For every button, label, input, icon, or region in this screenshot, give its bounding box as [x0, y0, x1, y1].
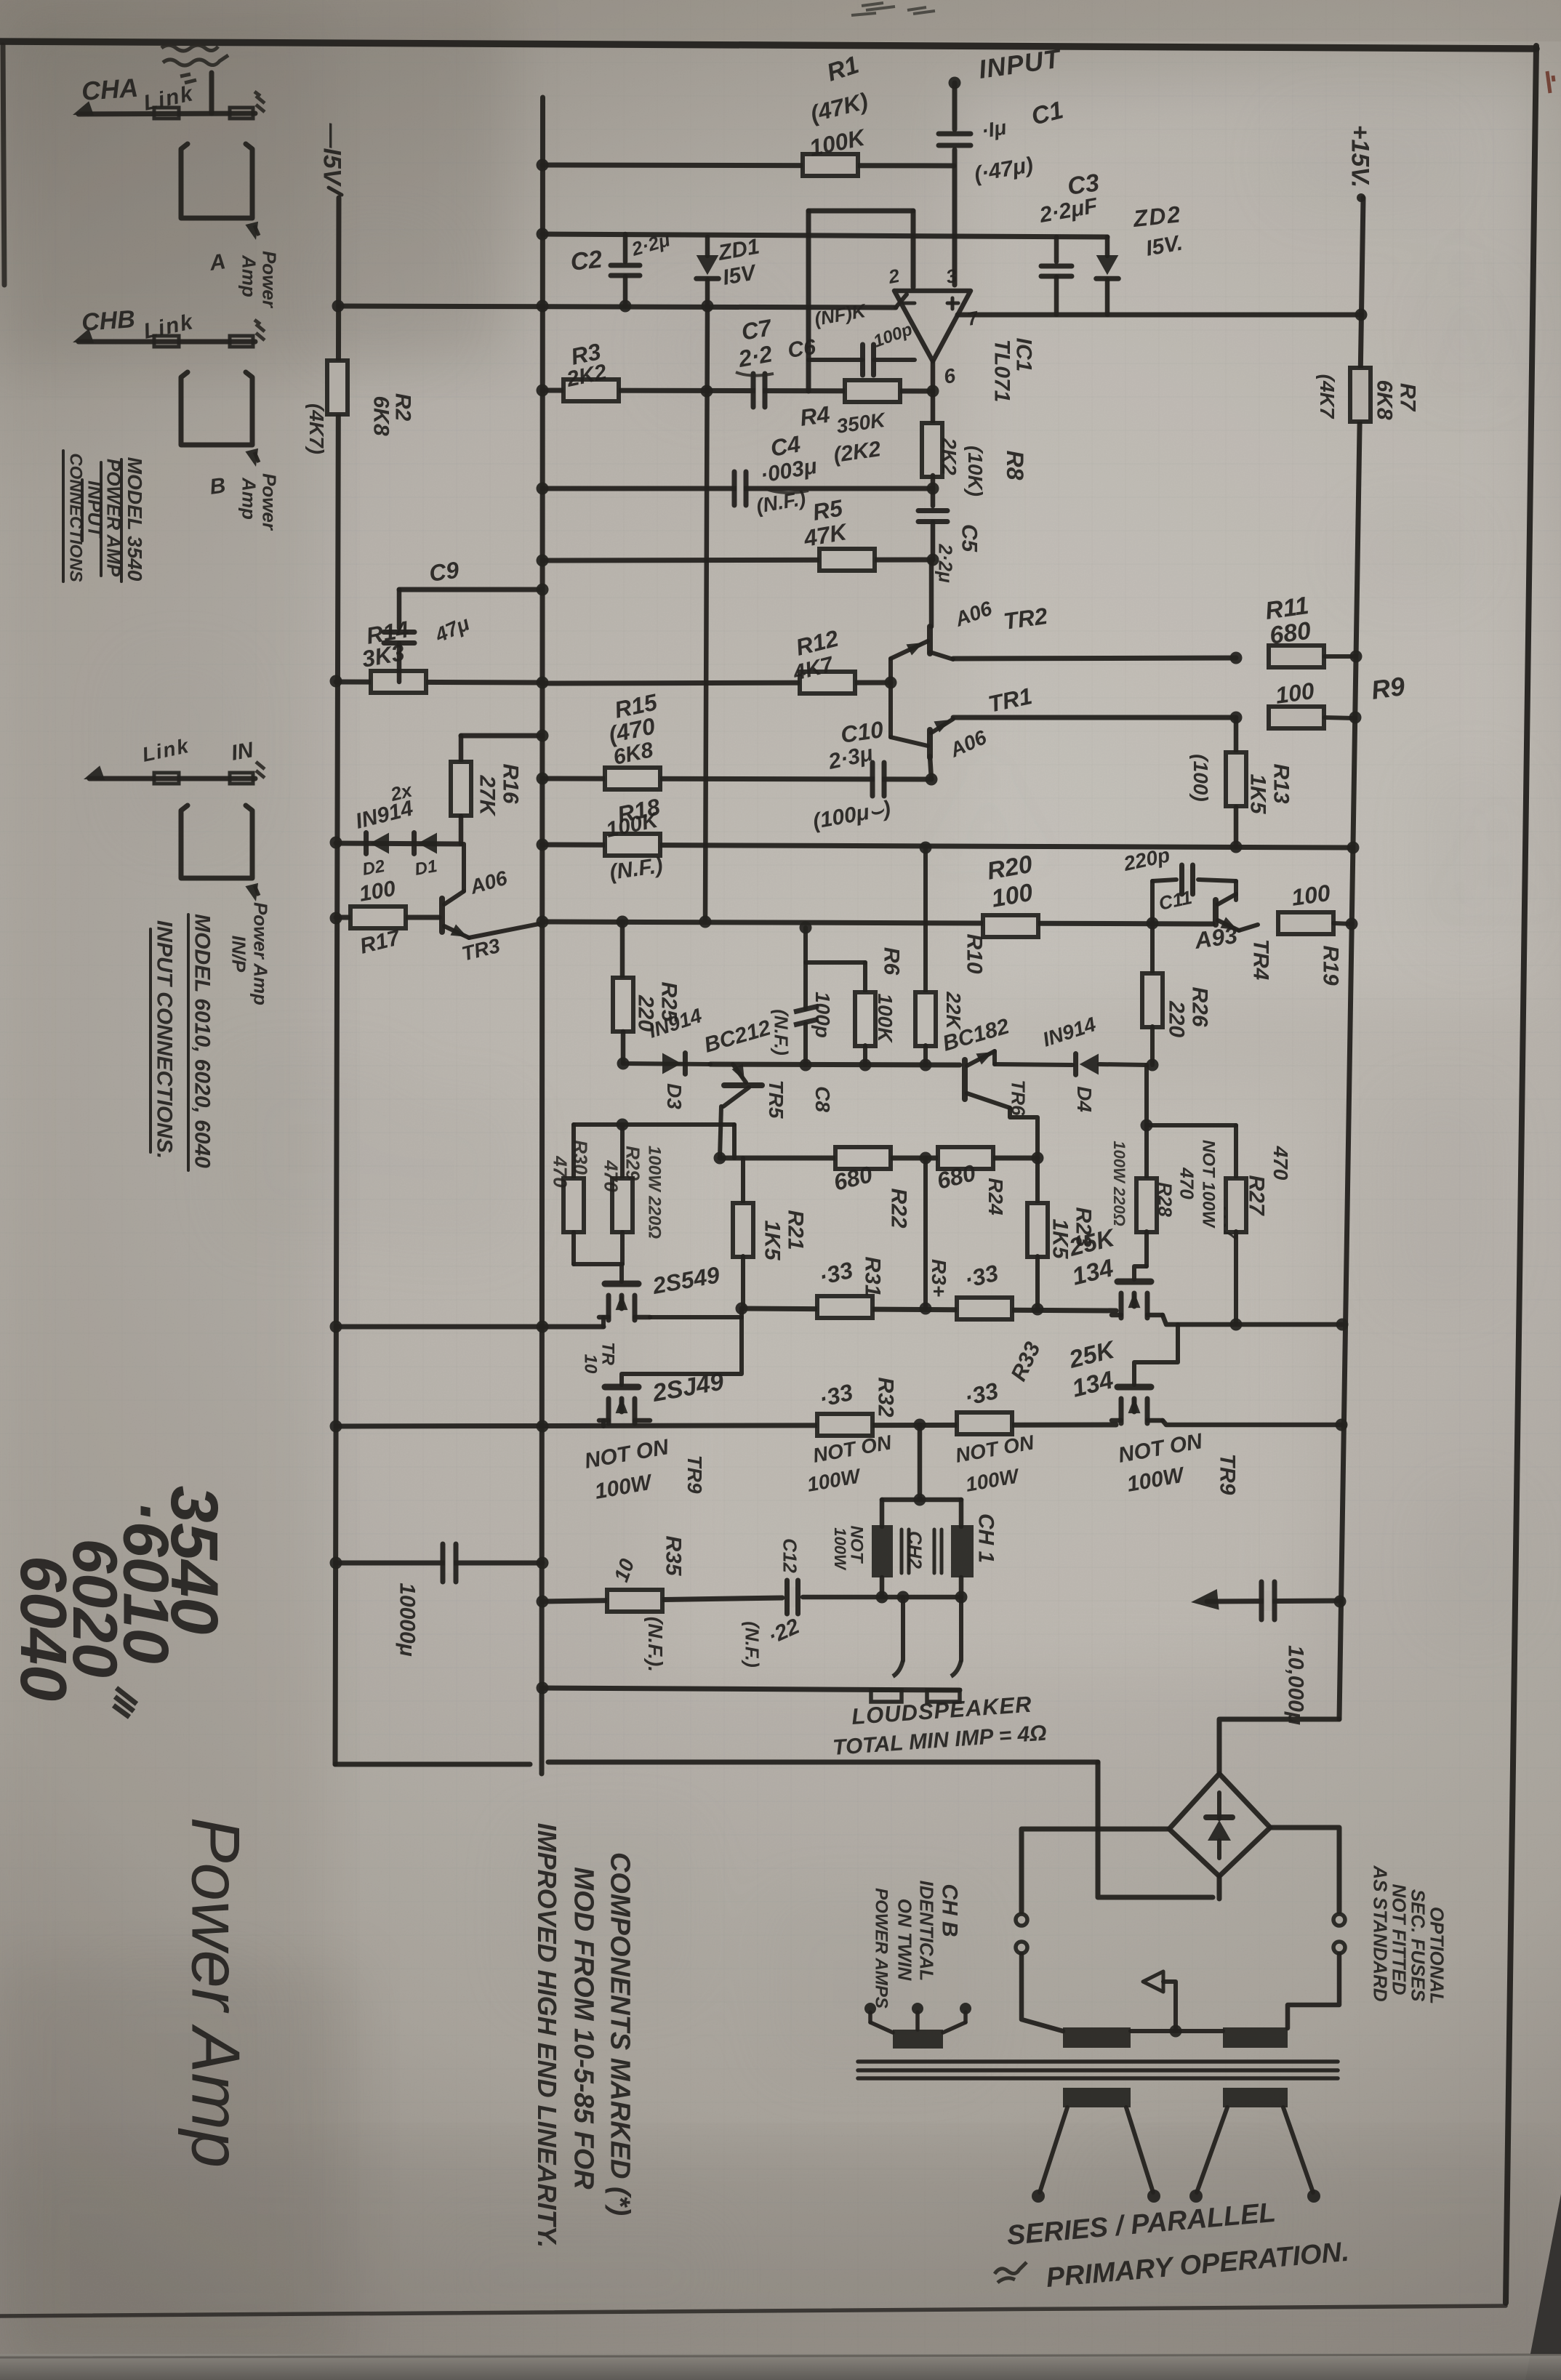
- zener ZD2: [1105, 237, 1110, 256]
- wire CH1 drop: [959, 1500, 964, 1527]
- svg-text:(N.F.): (N.F.): [741, 1621, 763, 1668]
- wire D3 row: [623, 1064, 710, 1064]
- wire TR4 emitter to R19: [1239, 925, 1258, 930]
- transistor TR2 base bar: [927, 627, 933, 654]
- top-centre scribbles: [851, 3, 935, 15]
- node D4/R26: [1147, 1059, 1159, 1072]
- main centre rail (vertical): [542, 97, 543, 1774]
- wire R1 row: [542, 165, 954, 166]
- resistor R26 (vertical): [1150, 923, 1155, 974]
- bridge rectifier diamond: [1169, 1774, 1270, 1876]
- long vertical from ZD1 node: [705, 306, 707, 922]
- capacitor 10000u main smoothing (left): [336, 1561, 542, 1566]
- node centre rail junction: [537, 1321, 549, 1333]
- node C11 bottom: [1147, 917, 1159, 930]
- wire bottom bus segment: [548, 1760, 1098, 1765]
- op-amp minus sign: [904, 302, 915, 305]
- resistor R12: [800, 672, 855, 694]
- wire TR10 source link: [650, 1308, 742, 1317]
- svg-text:+15V.: +15V.: [1347, 125, 1374, 188]
- svg-text:B: B: [208, 473, 227, 499]
- svg-text:R4: R4: [798, 401, 832, 431]
- svg-text:IC1: IC1: [1011, 338, 1035, 372]
- node left rail junction: [330, 912, 342, 925]
- svg-text:CH 1: CH 1: [974, 1513, 998, 1563]
- link wiper marks CH B: [254, 320, 265, 340]
- svg-text:R30: R30: [569, 1140, 591, 1175]
- svg-text:100: 100: [1274, 678, 1316, 709]
- mosfet TR10 (2SJ49 left): [605, 1281, 638, 1287]
- wire TR6 collector stub: [992, 1051, 997, 1064]
- capacitor C2: [623, 234, 628, 262]
- resistor R35: [607, 1590, 662, 1612]
- svg-text:10: 10: [581, 1354, 601, 1374]
- resistor R9: [1269, 707, 1324, 728]
- -15V rail (vertical): [335, 198, 339, 1764]
- node R23 bottom: [1032, 1303, 1044, 1316]
- svg-text:100K: 100K: [874, 994, 896, 1044]
- connector pad IN1: [154, 773, 179, 784]
- link wiper marks CH A: [254, 92, 265, 112]
- stub to op-amp pin2: [896, 294, 907, 307]
- resistor R17: [350, 906, 406, 928]
- wire R3/C7/R4 row: [542, 390, 933, 391]
- transistor TR4 collector lead: [1218, 894, 1236, 904]
- svg-text:22K: 22K: [942, 991, 965, 1030]
- wire R17 row: [336, 915, 439, 920]
- capacitor C4: [737, 478, 744, 499]
- svg-text:MODEL 6010, 6020, 6040: MODEL 6010, 6020, 6040: [190, 914, 214, 1168]
- svg-text:Power: Power: [258, 251, 280, 309]
- resistor R8 (vertical): [931, 391, 936, 425]
- capacitor C10: [875, 769, 882, 789]
- mosfet TR7 (2SK134): [1117, 1279, 1151, 1285]
- svg-text:R2: R2: [390, 393, 414, 422]
- wire ZD1 bottom row: [339, 306, 896, 307]
- resistor R19: [1278, 912, 1333, 934]
- svg-text:(4K7: (4K7: [1316, 374, 1339, 419]
- node centre rail junction: [537, 1682, 549, 1694]
- terminal primary 1 right: [1147, 2190, 1160, 2203]
- resistor R2 (vertical, on -15V rail): [327, 361, 348, 414]
- wire R30/R29 top row: [574, 1122, 734, 1127]
- node centre rail junction: [537, 839, 549, 851]
- node right rail junction: [1346, 918, 1358, 930]
- wire R30/R29 row to driver row: [732, 1125, 737, 1158]
- terminal primary 2 right: [1307, 2190, 1320, 2203]
- node ZD1 vertical / R3 row: [701, 385, 713, 398]
- node centre rail junction: [537, 228, 549, 241]
- wire R5 row: [542, 560, 933, 560]
- terminal primary 1 left: [1032, 2190, 1045, 2203]
- svg-text:(N.F.): (N.F.): [770, 1009, 792, 1056]
- svg-text:D3: D3: [663, 1083, 686, 1109]
- mosfet TR9 (left lower): [605, 1384, 638, 1391]
- transistor TR4 base bar: [1213, 900, 1219, 925]
- node centre rail junction: [537, 483, 549, 495]
- svg-text:R27: R27: [1244, 1175, 1268, 1215]
- node +15V rail top: [1357, 193, 1365, 202]
- wire primary 1 left lead: [1040, 2107, 1067, 2192]
- CH B terminals: [864, 2003, 876, 2014]
- wire fuse right to secondary: [1288, 1954, 1339, 2028]
- wire C2/ZD1 row: [542, 234, 1107, 237]
- node R5 row right: [927, 554, 939, 566]
- wire bridge bottom stub: [1217, 1876, 1222, 1899]
- wire bridge right arm: [1270, 1828, 1339, 1912]
- svg-text:CH B: CH B: [937, 1884, 961, 1937]
- wire R18 row: [542, 845, 1353, 848]
- op-amp IC1 TL071 triangle: [894, 291, 971, 361]
- capacitor C7: [755, 380, 763, 401]
- svg-text:MODEL 3540: MODEL 3540: [124, 457, 146, 582]
- node left rail junction: [330, 837, 342, 849]
- right-hand rail (vertical, tilted): [1339, 198, 1363, 1719]
- node R29 top: [617, 1119, 629, 1131]
- resistor R31: [817, 1296, 872, 1318]
- node ZD1 vertical / R20 row: [699, 916, 712, 928]
- diode D3: [662, 1053, 681, 1074]
- capacitor 10000u (right): [1207, 1601, 1340, 1601]
- fuse contacts left: [1016, 1914, 1027, 1926]
- node centre rail junction: [537, 677, 549, 689]
- wire TR6 emitter path: [1010, 1108, 1038, 1158]
- wire pin7 to +15V rail: [958, 313, 1361, 318]
- scribble after 6020: [113, 1688, 137, 1717]
- svg-text:TR4: TR4: [1248, 939, 1272, 981]
- ground arrow (right): [1191, 1589, 1219, 1609]
- node driver row left: [714, 1152, 726, 1165]
- node C4 row left: [927, 483, 939, 495]
- svg-text:MOD FROM 10-5-85 FOR: MOD FROM 10-5-85 FOR: [569, 1867, 599, 2190]
- wire CH2 to output row: [880, 1577, 885, 1597]
- wire output row to CH1: [803, 1595, 961, 1600]
- wire bottom bus to bridge: [1098, 1762, 1213, 1897]
- node R28/R27 row: [1141, 1119, 1153, 1132]
- wire speaker drop B: [959, 1597, 963, 1660]
- node R31/R22 vertical: [920, 1303, 932, 1315]
- node -15V/R2 junction: [332, 300, 345, 313]
- node output to chokes: [914, 1419, 926, 1431]
- choke CH1 core: [933, 1529, 936, 1573]
- wire bridge left arm: [1022, 1829, 1169, 1912]
- wire R28/R27 top row: [1147, 1123, 1236, 1127]
- input connector line with arrow: [89, 776, 255, 781]
- wire output rail to bridge top: [1219, 1719, 1339, 1774]
- link loop CH A: [181, 144, 252, 218]
- resistor R15: [605, 768, 660, 789]
- svg-text:470: 470: [1176, 1167, 1197, 1199]
- transformer core lines: [858, 2059, 1338, 2064]
- svg-text:R19: R19: [1318, 945, 1342, 985]
- svg-text:IDENTICAL: IDENTICAL: [915, 1881, 937, 1982]
- transistor TR6 base bar: [962, 1060, 968, 1099]
- node left rail junction: [330, 1557, 342, 1569]
- label FROM PREAMP scribble: [161, 45, 228, 83]
- transformer primary winding 2: [1223, 2088, 1288, 2107]
- capacitor C12: [790, 1587, 796, 1607]
- svg-text:2·2μ: 2·2μ: [934, 543, 956, 583]
- transistor TR6 collector lead: [967, 1051, 995, 1066]
- resistor R33: [957, 1412, 1012, 1434]
- svg-text:470: 470: [600, 1159, 622, 1192]
- wire R16 top row: [461, 733, 542, 739]
- wire lower gate row (R32/R33): [336, 1425, 1116, 1426]
- svg-text:1K5: 1K5: [760, 1220, 784, 1261]
- wire TR5 collector down: [720, 1106, 721, 1158]
- svg-text:AS STANDARD: AS STANDARD: [1369, 1865, 1391, 2002]
- svg-text:27K: 27K: [475, 774, 499, 816]
- svg-text:NOT 100W: NOT 100W: [1199, 1140, 1219, 1229]
- resistor R4: [845, 380, 900, 402]
- wire CH2 drop: [880, 1500, 885, 1527]
- connector pad A1: [154, 108, 179, 118]
- connector pad B2: [230, 336, 253, 347]
- resistor R22: [835, 1147, 891, 1169]
- svg-text:R3+: R3+: [928, 1259, 950, 1297]
- CH A input line with arrow: [79, 113, 255, 114]
- svg-text:R26: R26: [1187, 986, 1211, 1026]
- wire TR8 drain up: [1134, 1324, 1178, 1385]
- capacitor C5: [931, 489, 936, 506]
- feedback loop left vertical: [806, 211, 811, 391]
- resistor R29 (vertical): [620, 1125, 625, 1178]
- transistor TR5 emitter lead: [733, 1064, 746, 1082]
- ground arrow (transformer): [1163, 1982, 1176, 2031]
- transistor TR1 base bar: [927, 730, 933, 757]
- svg-text:TL071: TL071: [990, 339, 1014, 403]
- svg-text:R24: R24: [984, 1178, 1007, 1215]
- svg-text:6K8: 6K8: [1372, 379, 1396, 419]
- svg-text:100p: 100p: [811, 992, 834, 1038]
- wire primary 2 right lead: [1283, 2107, 1313, 2192]
- link loop IN: [181, 805, 252, 878]
- wire TR9 drain link: [622, 1317, 742, 1385]
- wire R20 row: [542, 922, 1213, 924]
- svg-text:6040: 6040: [7, 1556, 79, 1701]
- svg-text:R31: R31: [860, 1256, 884, 1296]
- wire input to C1: [952, 83, 958, 129]
- svg-text:C5: C5: [957, 524, 981, 553]
- node input junction: [949, 77, 961, 89]
- wire primary 2 left lead: [1197, 2107, 1227, 2192]
- transistor TR1 base lead: [891, 737, 928, 746]
- bottom-right dark wedge: [1525, 2194, 1561, 2380]
- resistor R20: [983, 915, 1038, 937]
- node C8 bottom: [800, 1059, 812, 1072]
- node TR2/R11: [1230, 652, 1243, 664]
- wire CH1 to output row: [959, 1577, 964, 1597]
- capacitor C11 loop: [1150, 881, 1155, 923]
- svg-text:INPUT CONNECTIONS.: INPUT CONNECTIONS.: [152, 920, 176, 1159]
- capacitor C8 (vertical): [803, 928, 808, 1009]
- node centre rail junction: [537, 730, 549, 742]
- resistor R3: [563, 379, 619, 401]
- transistor TR5 base bar: [724, 1082, 762, 1088]
- node centre rail junction: [537, 916, 549, 928]
- svg-text:Power Amp: Power Amp: [177, 1817, 254, 2168]
- node R10 top: [920, 842, 932, 854]
- resistor R7 (on +15V rail): [1350, 368, 1371, 422]
- capacitor C9 (vertical): [397, 590, 402, 628]
- svg-text:(10K): (10K): [964, 446, 987, 496]
- node centre rail junction: [537, 773, 549, 785]
- svg-text:R32: R32: [873, 1377, 897, 1417]
- resistor R28 (vertical): [1144, 1125, 1149, 1179]
- wire R22 junction vertical: [923, 1158, 928, 1308]
- wire -15V rail to bottom corner: [335, 1762, 530, 1767]
- wire TR2 collector: [929, 560, 934, 627]
- svg-text:R7: R7: [1395, 383, 1419, 412]
- link loop CH B: [181, 372, 252, 445]
- wire R30/R29 bottom row: [574, 1262, 622, 1266]
- node right rail junction: [1355, 309, 1368, 321]
- svg-text:ZD2: ZD2: [1131, 201, 1183, 232]
- transistor TR4 emitter lead: [1218, 920, 1239, 930]
- bridge centre diode: [1217, 1793, 1221, 1819]
- svg-text:TR6: TR6: [1007, 1080, 1029, 1116]
- resistor R23 (vertical): [1035, 1158, 1040, 1204]
- wire op-amp output: [931, 361, 936, 391]
- scribble before PRIMARY: [995, 2262, 1027, 2283]
- resistor R34: [957, 1298, 1012, 1319]
- speaker terminal B: [927, 1690, 960, 1702]
- svg-text:—I5V: —I5V: [318, 122, 346, 187]
- mosfet TR8 (2SJ49): [1117, 1384, 1151, 1391]
- node right rail junction: [1350, 651, 1363, 663]
- capacitor C3: [1054, 237, 1059, 262]
- svg-text:CONNECTIONS: CONNECTIONS: [66, 453, 86, 582]
- transistor TR3 collector: [444, 891, 464, 904]
- resistor R24: [938, 1147, 993, 1169]
- hook and arrow IN: [254, 885, 259, 896]
- node left rail junction: [330, 1321, 342, 1333]
- terminal primary 2 left: [1189, 2190, 1203, 2203]
- hook mark CH A: [254, 225, 259, 236]
- link wiper marks IN: [256, 762, 265, 778]
- connector pad IN2: [230, 773, 253, 784]
- wire speaker return bus: [542, 1688, 960, 1690]
- wire R11 to rail: [1325, 654, 1356, 659]
- node centre rail junction: [537, 1596, 549, 1608]
- svg-text:C2: C2: [569, 246, 603, 276]
- choke CH2 winding: [872, 1525, 893, 1577]
- node centre rail junction: [537, 300, 549, 313]
- red registration mark top-right: [1547, 71, 1554, 93]
- node R25 top: [617, 916, 629, 928]
- capacitor C6: [865, 350, 872, 370]
- speaker terminal A: [871, 1690, 902, 1702]
- fuse contacts right: [1333, 1914, 1345, 1926]
- svg-text:TR: TR: [598, 1342, 618, 1366]
- resistor R25 (vertical): [620, 922, 625, 978]
- svg-text:IN/P: IN/P: [228, 936, 249, 973]
- wire driver row: [720, 1156, 1038, 1161]
- wire D4 to gate node: [1099, 1064, 1147, 1065]
- resistor R10 (vertical): [923, 848, 928, 993]
- wire diode row (D2 D1): [336, 843, 461, 844]
- resistor R14: [371, 671, 426, 693]
- diode D2: [370, 833, 389, 854]
- wire R19 to rail: [1333, 923, 1352, 924]
- wire R35 output row: [542, 1598, 782, 1601]
- svg-text:R35: R35: [661, 1535, 685, 1576]
- svg-text:470: 470: [549, 1155, 571, 1188]
- node centre rail junction: [537, 385, 549, 397]
- transformer primary winding 1: [1063, 2088, 1131, 2107]
- wire left gate row upper (y1825): [336, 1324, 603, 1330]
- wire secondary centre link: [1131, 2029, 1223, 2033]
- svg-text:·Iμ: ·Iμ: [980, 116, 1008, 142]
- zener ZD1: [705, 237, 710, 256]
- wire R6 jog: [806, 960, 865, 965]
- node right rail junction: [1336, 1319, 1349, 1331]
- svg-text:TR9: TR9: [683, 1455, 706, 1494]
- CH B terminal leads: [868, 2012, 872, 2022]
- transistor TR5 collector lead: [723, 1088, 749, 1106]
- wire R14 row: [336, 682, 542, 683]
- resistor R13 (vertical): [1234, 718, 1239, 752]
- svg-text:Power: Power: [258, 473, 280, 531]
- capacitor C1: [939, 132, 971, 137]
- resistor R5: [819, 549, 875, 571]
- svg-text:(4K7): (4K7): [305, 403, 328, 454]
- svg-text:1K5: 1K5: [1245, 773, 1269, 814]
- svg-text:TR9: TR9: [1215, 1454, 1239, 1495]
- hook mark CH B: [254, 452, 259, 462]
- node centre rail junction: [537, 555, 549, 567]
- node R23 top: [1032, 1152, 1044, 1165]
- node ZD1 bottom: [702, 300, 714, 313]
- svg-text:C9: C9: [428, 557, 461, 587]
- svg-text:R29: R29: [622, 1146, 643, 1181]
- wire TR2 to R11: [953, 658, 1236, 659]
- svg-text:Power Amp: Power Amp: [249, 902, 271, 1005]
- wire base node down: [888, 683, 893, 737]
- svg-text:100: 100: [1290, 880, 1332, 911]
- svg-text:100W: 100W: [831, 1527, 849, 1571]
- node left rail junction: [330, 675, 342, 688]
- svg-text:100W 220Ω: 100W 220Ω: [645, 1146, 665, 1239]
- node left rail junction: [330, 1420, 342, 1433]
- node right rail junction: [1336, 1419, 1348, 1431]
- gate resistor network node: [1144, 1065, 1149, 1125]
- wire D4 row: [995, 1064, 1072, 1065]
- resistor R16 (vertical): [459, 736, 464, 761]
- connector pad B1: [154, 336, 179, 347]
- feedback loop right vertical: [911, 211, 916, 287]
- svg-text:R22: R22: [886, 1188, 910, 1228]
- node R6 bottom: [859, 1059, 872, 1072]
- wire TR7 source to rail: [1163, 1315, 1342, 1324]
- CH B input line with arrow: [79, 339, 255, 345]
- page left border line: [3, 45, 4, 285]
- svg-text:100W 220Ω: 100W 220Ω: [1110, 1141, 1128, 1226]
- choke CH2 core: [900, 1529, 904, 1573]
- svg-text:(100): (100): [1189, 754, 1212, 801]
- svg-text:C12: C12: [779, 1538, 800, 1573]
- wire chokes tee: [882, 1497, 961, 1503]
- resistor R11: [1269, 646, 1324, 667]
- resistor R18: [605, 834, 660, 856]
- wire R28 to TR7 gate: [1134, 1266, 1147, 1279]
- svg-text:COMPONENTS MARKED (*): COMPONENTS MARKED (*): [605, 1852, 635, 2216]
- node CH2 output: [876, 1591, 888, 1604]
- wire TR1 to R9: [953, 715, 1236, 720]
- choke CH1 winding: [951, 1525, 974, 1577]
- transistor TR1 collector lead: [931, 719, 953, 733]
- node speaker tap A: [897, 1591, 910, 1604]
